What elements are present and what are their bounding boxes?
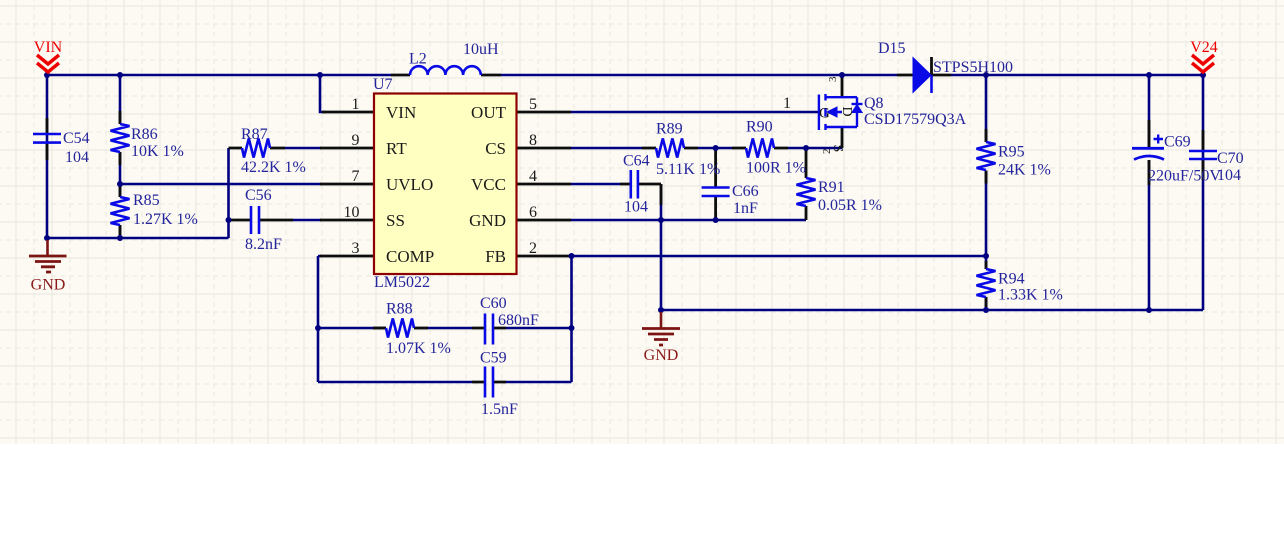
svg-text:CSD17579Q3A: CSD17579Q3A xyxy=(864,111,967,128)
wire GND pin row xyxy=(571,219,806,222)
op-amp U7 IC body xyxy=(374,94,517,275)
capacitor C56 xyxy=(251,206,259,234)
pin stub U7 pin9 RT xyxy=(320,147,374,150)
svg-text:10uH: 10uH xyxy=(463,41,499,58)
svg-text:104: 104 xyxy=(1217,167,1241,184)
svg-text:CS: CS xyxy=(485,139,506,158)
svg-text:D15: D15 xyxy=(878,40,906,57)
wire COMP vertical xyxy=(318,256,322,382)
capacitor C54 xyxy=(33,134,61,143)
node VIN corner xyxy=(44,72,50,78)
pin stub U7 pin2 FB xyxy=(517,255,571,258)
svg-text:SS: SS xyxy=(386,211,405,230)
svg-text:LM5022: LM5022 xyxy=(374,274,430,291)
svg-text:C60: C60 xyxy=(480,295,507,312)
wire C56 to SS pin xyxy=(293,219,322,222)
IC pin names xyxy=(386,103,507,266)
resistor R85 xyxy=(111,197,130,225)
svg-text:4: 4 xyxy=(529,168,537,185)
pin lead R85 xyxy=(119,185,122,237)
svg-text:FB: FB xyxy=(485,247,506,266)
svg-text:1nF: 1nF xyxy=(733,200,758,217)
pin lead C60 xyxy=(472,327,506,330)
pin lead C70 xyxy=(1202,130,1205,180)
svg-text:GND: GND xyxy=(469,211,506,230)
node C69 rail tap xyxy=(1146,72,1152,78)
svg-text:C56: C56 xyxy=(245,187,272,204)
wire left vertical C54 branch xyxy=(46,75,49,238)
pin lead D15 anode xyxy=(897,74,913,77)
pin lead R88 xyxy=(414,327,428,330)
svg-text:8: 8 xyxy=(529,132,537,149)
svg-text:G: G xyxy=(819,106,830,122)
pin stub U7 pin8 CS xyxy=(517,147,571,150)
pin stub U7 pin4 VCC xyxy=(517,183,571,186)
svg-text:R89: R89 xyxy=(656,121,683,138)
wire top rail L2 to D15 xyxy=(501,74,897,77)
pin stub U7 pin5 OUT xyxy=(517,111,571,114)
node R90 R91 source junction xyxy=(803,145,809,151)
svg-text:1: 1 xyxy=(783,95,791,112)
node pin1 rail tap xyxy=(317,72,323,78)
svg-text:R91: R91 xyxy=(818,179,845,196)
capacitor C60 xyxy=(485,314,493,345)
pin lead R86 xyxy=(119,111,122,165)
node GND row C64 tap xyxy=(658,217,664,223)
power port VIN xyxy=(34,39,63,72)
capacitor C70 xyxy=(1189,151,1217,159)
svg-text:5: 5 xyxy=(529,96,537,113)
power port V24 xyxy=(1190,39,1218,72)
wire C60 to FB vertical xyxy=(506,327,572,330)
wire CS row xyxy=(571,147,842,150)
node C69 bottom rail xyxy=(1146,307,1152,313)
svg-text:RT: RT xyxy=(386,139,407,158)
svg-text:6: 6 xyxy=(529,204,537,221)
svg-text:5.11K 1%: 5.11K 1% xyxy=(656,161,720,178)
node R95 R94 FB junction xyxy=(983,253,989,259)
svg-text:R85: R85 xyxy=(133,192,160,209)
wire R87 C56 vertical xyxy=(227,148,230,238)
wire R87 to RT pin xyxy=(285,147,322,150)
svg-text:1.27K 1%: 1.27K 1% xyxy=(133,211,198,228)
svg-text:10: 10 xyxy=(344,204,360,221)
wire top rail D15 to V24 xyxy=(951,74,1203,77)
wire top rail VIN to L2 xyxy=(47,74,391,77)
BLACK PIN STUBS xyxy=(47,57,1203,382)
svg-text:C59: C59 xyxy=(480,350,507,367)
node FB stub junction xyxy=(569,253,575,259)
pin lead D15 cathode xyxy=(932,57,952,75)
wire C69 vertical xyxy=(1148,75,1151,310)
svg-text:2: 2 xyxy=(529,240,537,257)
svg-text:R90: R90 xyxy=(746,119,773,136)
svg-text:1.33K 1%: 1.33K 1% xyxy=(998,287,1063,304)
svg-text:R86: R86 xyxy=(131,126,158,143)
node R94 bottom rail xyxy=(983,307,989,313)
wire FB vertical to compensation xyxy=(570,256,573,382)
svg-text:42.2K 1%: 42.2K 1% xyxy=(241,159,306,176)
pin lead L2 xyxy=(391,74,501,77)
svg-text:C66: C66 xyxy=(732,183,759,200)
svg-text:1: 1 xyxy=(352,96,360,113)
pin stub U7 pin6 GND xyxy=(517,219,571,222)
svg-text:C69: C69 xyxy=(1164,134,1191,151)
wire bottom output rail xyxy=(661,309,1203,312)
pin lead C59 xyxy=(472,381,506,384)
node COMP R88 tap xyxy=(315,325,321,331)
capacitor C66 xyxy=(702,188,730,197)
svg-text:8.2nF: 8.2nF xyxy=(245,236,282,253)
svg-text:VIN: VIN xyxy=(386,103,416,122)
wire OUT to Q8 gate xyxy=(571,111,818,114)
pin lead C69 xyxy=(1148,120,1151,185)
svg-text:OUT: OUT xyxy=(471,103,507,122)
resistor R87 xyxy=(242,139,270,158)
svg-text:GND: GND xyxy=(644,347,679,364)
svg-text:U7: U7 xyxy=(373,76,393,93)
node C56 tap xyxy=(226,217,232,223)
pin stub U7 pin3 COMP xyxy=(320,255,374,258)
svg-text:VCC: VCC xyxy=(471,175,506,194)
svg-text:C54: C54 xyxy=(63,130,90,147)
IC pin numbers xyxy=(344,95,792,257)
wire C59 row xyxy=(318,381,572,384)
node R86 top xyxy=(117,72,123,78)
svg-text:R87: R87 xyxy=(241,126,268,143)
pin lead C64 corner black xyxy=(660,184,663,205)
svg-text:3: 3 xyxy=(352,240,360,257)
svg-text:GND: GND xyxy=(31,277,66,294)
pin lead R87 left xyxy=(229,147,286,150)
capacitor C64 xyxy=(631,170,638,199)
node R95 rail tap xyxy=(983,72,989,78)
svg-text:3: 3 xyxy=(827,76,839,82)
node GND bottom rail xyxy=(658,307,664,313)
svg-text:104: 104 xyxy=(65,149,89,166)
svg-text:V24: V24 xyxy=(1190,39,1218,56)
svg-text:7: 7 xyxy=(352,168,360,185)
resistor R86 xyxy=(111,124,130,152)
resistor R94 xyxy=(977,269,996,297)
pin lead R91 xyxy=(805,150,808,220)
node R86 R85 UVLO junction xyxy=(117,181,123,187)
resistor R90 xyxy=(746,139,774,158)
svg-text:R94: R94 xyxy=(998,271,1025,288)
svg-text:COMP: COMP xyxy=(386,247,434,266)
diode D15 xyxy=(913,58,932,94)
pin stub U7 pin7 UVLO xyxy=(320,183,374,186)
pin lead R89 xyxy=(642,147,698,150)
resistor R88 xyxy=(386,319,414,338)
svg-text:R95: R95 xyxy=(998,144,1025,161)
svg-text:220uF/50V: 220uF/50V xyxy=(1148,168,1221,185)
svg-text:L2: L2 xyxy=(409,51,427,68)
svg-text:1.5nF: 1.5nF xyxy=(481,401,518,418)
wire R95 R94 vertical xyxy=(985,75,988,310)
node GND row C66 tap xyxy=(713,217,719,223)
transistor Q8 xyxy=(819,94,863,152)
svg-text:104: 104 xyxy=(624,199,648,216)
node R85 ground xyxy=(117,235,123,241)
wire UVLO row xyxy=(120,183,322,186)
wire VCC row to C64 xyxy=(571,183,620,186)
svg-text:0.05R 1%: 0.05R 1% xyxy=(818,197,882,214)
pin lead R90 xyxy=(732,147,788,150)
wire COMP to R88 xyxy=(318,327,386,330)
wire C64 to GND vertical xyxy=(660,184,663,310)
svg-text:24K 1%: 24K 1% xyxy=(998,162,1051,179)
svg-text:VIN: VIN xyxy=(34,39,63,56)
wire R86 R85 divider vertical xyxy=(119,75,122,238)
pin lead Q8 source xyxy=(841,127,844,148)
ground GND left xyxy=(29,240,67,294)
pin lead C56 xyxy=(229,219,294,222)
svg-text:C64: C64 xyxy=(623,153,650,170)
pin lead R88 left xyxy=(373,327,386,330)
svg-text:10K 1%: 10K 1% xyxy=(131,143,184,160)
pin stub U7 pin1 VIN xyxy=(322,111,374,114)
pin lead R94 xyxy=(985,261,988,307)
svg-text:UVLO: UVLO xyxy=(386,175,433,194)
node R89 R90 C66 junction xyxy=(713,145,719,151)
ground GND middle xyxy=(642,312,680,364)
wire bottom-left ground rail xyxy=(47,237,229,240)
svg-text:1.07K 1%: 1.07K 1% xyxy=(386,340,451,357)
inductor L2 xyxy=(410,66,481,75)
node C54 ground xyxy=(44,235,50,241)
resistor R95 xyxy=(977,142,996,170)
pin lead C54 xyxy=(46,118,49,160)
wire R88 to C60 xyxy=(428,327,472,330)
svg-text:D: D xyxy=(839,107,854,117)
node Q8 drain rail tap xyxy=(839,72,845,78)
svg-text:STPS5H100: STPS5H100 xyxy=(933,59,1013,76)
wire FB row xyxy=(571,255,986,258)
capacitor C69 polarized xyxy=(1132,135,1164,160)
pin lead R95 xyxy=(985,129,988,184)
pin lead C64 xyxy=(620,183,661,186)
node V24 corner xyxy=(1200,72,1206,78)
pin stub U7 pin10 SS xyxy=(320,219,374,222)
pin lead C66 xyxy=(714,148,717,220)
svg-text:680nF: 680nF xyxy=(498,312,539,329)
svg-text:2: 2 xyxy=(821,149,833,155)
pin lead Q8 drain xyxy=(841,75,844,97)
svg-text:C70: C70 xyxy=(1217,150,1244,167)
svg-text:R88: R88 xyxy=(386,301,413,318)
svg-text:9: 9 xyxy=(352,132,360,149)
wire V24 right vertical with C70 xyxy=(1202,75,1205,310)
resistor R91 xyxy=(797,178,816,206)
svg-text:Q8: Q8 xyxy=(864,95,884,112)
wire pin1 drop from rail xyxy=(320,75,326,112)
capacitor C59 xyxy=(485,367,493,398)
svg-text:100R 1%: 100R 1% xyxy=(746,160,806,177)
node C60 FB tap xyxy=(569,325,575,331)
resistor R89 xyxy=(656,139,684,158)
